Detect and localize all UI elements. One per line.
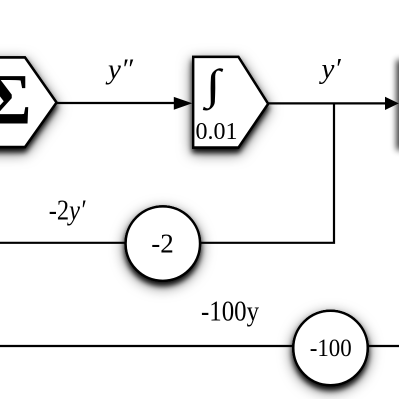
svg-text:∫: ∫ [202, 62, 223, 111]
integrator U1 [193, 57, 268, 148]
summing block SIGMA [0, 58, 57, 148]
arrowhead into integrator U1 [174, 97, 193, 110]
svg-text:0.01: 0.01 [196, 119, 238, 145]
shadow edge of off-frame right block [397, 60, 399, 150]
svg-text:y″: y″ [105, 54, 134, 86]
gain block -2 [126, 206, 200, 280]
svg-text:-100: -100 [310, 335, 352, 362]
svg-text:Σ: Σ [0, 60, 32, 140]
wire: integrator output to next block [268, 102, 386, 104]
svg-text:-2: -2 [151, 228, 174, 258]
svg-text:y′: y′ [319, 53, 342, 85]
gain block -100 [293, 311, 367, 385]
arrowhead into right block [385, 97, 399, 110]
svg-text:-2y′: -2y′ [49, 195, 86, 226]
wire: summer output to integrator [57, 102, 179, 104]
svg-text:-100y: -100y [201, 296, 259, 327]
wire: feedback branch from y' node down and left to summer [0, 103, 334, 242]
wire: bottom feedback line -100y [0, 345, 399, 347]
